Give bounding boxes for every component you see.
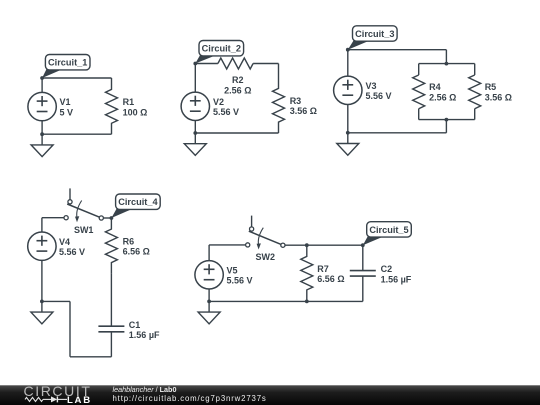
- label Circuit_3 callout: [348, 26, 397, 50]
- wire C2 top lead: [362, 245, 364, 270]
- resistor R3: [273, 64, 285, 134]
- svg-text:V3: V3: [366, 81, 377, 91]
- footer url text: [113, 394, 267, 403]
- label V2 value: [213, 97, 239, 117]
- wire V4 to switch: [42, 218, 64, 232]
- svg-text:http://circuitlab.com/cg7p3nrw: http://circuitlab.com/cg7p3nrw2737s: [113, 394, 267, 403]
- node circuit 2 top: [193, 62, 197, 66]
- label R5 value: [485, 82, 512, 102]
- wire V5 bottom lead: [208, 289, 210, 301]
- voltage source V3: [334, 76, 362, 104]
- logo LAB text: [67, 395, 92, 405]
- svg-text:1.56 µF: 1.56 µF: [381, 274, 412, 284]
- label Circuit_5 callout: [363, 222, 412, 246]
- label V3 value: [366, 81, 392, 101]
- wire bottom rail circuit 3: [348, 120, 447, 133]
- wire V2 top lead: [194, 64, 196, 93]
- svg-text:3.56 Ω: 3.56 Ω: [485, 92, 512, 102]
- node circuit 3 junction bottom: [445, 118, 449, 122]
- label V1 value: [60, 97, 74, 117]
- resistor R4: [413, 75, 425, 109]
- resistor R1: [106, 78, 118, 134]
- ground: [184, 133, 206, 155]
- svg-text:V5: V5: [227, 265, 238, 275]
- wire V3 bottom lead: [347, 105, 349, 133]
- svg-text:V1: V1: [60, 97, 71, 107]
- capacitor C1: [98, 326, 124, 332]
- label R2 value: [224, 75, 251, 96]
- ground: [31, 301, 53, 323]
- node circuit 4: [110, 216, 114, 220]
- wire switch to node circuit 4: [103, 217, 111, 219]
- wire C2 bottom lead: [362, 276, 364, 301]
- label Circuit_1 callout: [42, 55, 90, 79]
- label SW1: [74, 225, 94, 235]
- voltage source V2: [181, 92, 209, 120]
- footer bar: [0, 385, 540, 405]
- label R7 value: [317, 264, 344, 284]
- svg-text:R5: R5: [485, 82, 497, 92]
- label Circuit_2 callout: [195, 41, 243, 64]
- ground: [337, 133, 359, 155]
- svg-text:C1: C1: [129, 320, 141, 330]
- svg-text:5.56 V: 5.56 V: [213, 107, 239, 117]
- wire bottom rail circuit 5: [209, 300, 363, 302]
- resistor R5: [469, 75, 481, 109]
- wire switch to C2 circuit 5: [285, 244, 363, 246]
- svg-text:R2: R2: [232, 75, 244, 85]
- wire V1 bottom lead: [41, 121, 43, 134]
- wire branch bottom circuit 3: [419, 109, 475, 120]
- wire V1 top lead: [41, 78, 43, 92]
- wire top rail circuit 1: [42, 77, 111, 79]
- svg-text:Circuit_1: Circuit_1: [48, 58, 87, 68]
- svg-text:5.56 V: 5.56 V: [366, 91, 392, 101]
- wire bottom rail circuit 1: [42, 133, 111, 135]
- logo resistor symbol: [25, 397, 43, 401]
- label V4 value: [59, 237, 85, 257]
- node R7 top: [305, 243, 309, 247]
- voltage source V4: [28, 232, 56, 260]
- svg-text:R6: R6: [123, 236, 135, 246]
- label R4 value: [429, 82, 456, 102]
- svg-text:5.56 V: 5.56 V: [59, 247, 85, 257]
- switch SW1: [64, 188, 103, 222]
- node R7 bottom: [305, 300, 309, 304]
- label C2 value: [381, 264, 412, 284]
- svg-text:Circuit_4: Circuit_4: [118, 197, 158, 207]
- node C2 top: [361, 243, 365, 247]
- capacitor C2: [350, 271, 376, 277]
- node circuit 3 junction top: [445, 62, 449, 66]
- ground: [31, 134, 53, 156]
- logo CIRCUIT text: [24, 383, 92, 399]
- label R3 value: [290, 96, 317, 116]
- svg-text:1.56 µF: 1.56 µF: [129, 330, 160, 340]
- svg-text:2.56 Ω: 2.56 Ω: [429, 92, 456, 102]
- svg-text:V4: V4: [59, 237, 70, 247]
- svg-text:2.56 Ω: 2.56 Ω: [224, 85, 251, 95]
- wire top rail circuit 2: [195, 63, 278, 65]
- svg-text:R3: R3: [290, 96, 302, 106]
- label Circuit_4 callout: [111, 194, 160, 218]
- svg-text:5 V: 5 V: [60, 107, 74, 117]
- wire V4 bottom lead: [41, 260, 43, 301]
- wire top rail circuit 3: [348, 50, 447, 64]
- svg-text:Circuit_3: Circuit_3: [355, 29, 394, 39]
- node circuit 1 top: [40, 76, 44, 80]
- node circuit 5 bottom: [207, 300, 211, 304]
- svg-text:leahblancher / Lab0: leahblancher / Lab0: [113, 385, 177, 394]
- logo diode symbol: [43, 396, 67, 402]
- footer title text: [113, 385, 177, 394]
- wire branch top circuit 3: [419, 64, 475, 75]
- label R6 value: [123, 236, 150, 256]
- node circuit 3 bottom: [346, 131, 350, 135]
- svg-text:SW1: SW1: [74, 225, 94, 235]
- wire C1 bottom loop: [42, 301, 112, 356]
- node circuit 1 bottom: [40, 132, 44, 136]
- svg-text:R1: R1: [123, 97, 135, 107]
- svg-text:V2: V2: [213, 97, 224, 107]
- resistor R7: [301, 245, 313, 301]
- wire V2 bottom lead: [194, 121, 196, 134]
- svg-text:6.56 Ω: 6.56 Ω: [123, 247, 150, 257]
- svg-text:LAB: LAB: [67, 395, 92, 405]
- svg-text:3.56 Ω: 3.56 Ω: [290, 106, 317, 116]
- svg-text:100 Ω: 100 Ω: [123, 107, 148, 117]
- svg-text:5.56 V: 5.56 V: [227, 276, 253, 286]
- svg-text:Circuit_5: Circuit_5: [369, 225, 408, 235]
- label V5 value: [227, 265, 253, 285]
- wire V3 top lead: [347, 50, 349, 76]
- resistor R6: [105, 218, 117, 274]
- wire V5 to switch: [209, 245, 246, 261]
- node circuit 3 top: [346, 48, 350, 52]
- wire bottom rail circuit 2: [195, 132, 278, 134]
- switch SW2: [246, 216, 285, 250]
- label R1 value: [123, 97, 148, 117]
- svg-text:6.56 Ω: 6.56 Ω: [317, 274, 344, 284]
- node circuit 4 bottom: [40, 300, 44, 304]
- svg-text:Circuit_2: Circuit_2: [202, 44, 241, 54]
- svg-text:C2: C2: [381, 264, 393, 274]
- node circuit 2 bottom: [193, 131, 197, 135]
- svg-text:SW2: SW2: [256, 252, 276, 262]
- label C1 value: [129, 320, 160, 340]
- label SW2: [256, 252, 276, 262]
- svg-text:R7: R7: [317, 264, 329, 274]
- voltage source V5: [195, 261, 223, 289]
- ground: [198, 301, 220, 323]
- wire R6 to C1: [110, 274, 112, 326]
- resistor R2: [218, 58, 253, 69]
- svg-text:R4: R4: [429, 82, 441, 92]
- voltage source V1: [28, 92, 56, 120]
